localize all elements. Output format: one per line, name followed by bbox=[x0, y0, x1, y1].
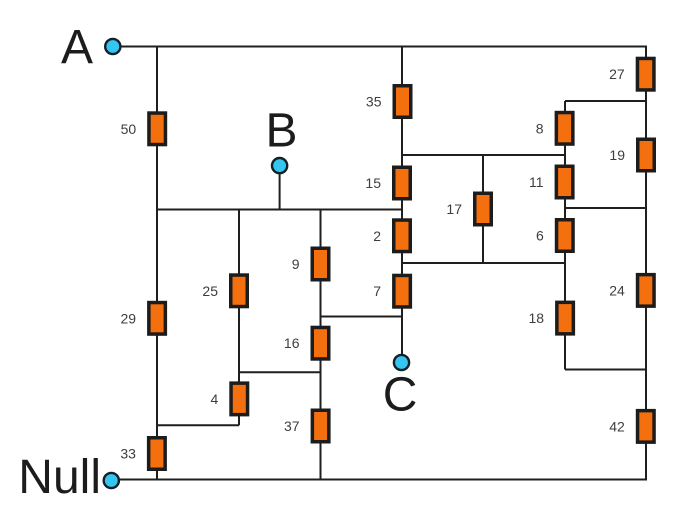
wire: horizontal y=101 from R8 top to right column bbox=[565, 100, 646, 102]
wire: horizontal y=263 between col 402 and col 565 bbox=[402, 262, 565, 264]
resistor R4 bbox=[231, 383, 248, 415]
wire: left column x=157 from top wire to bottom wire bbox=[156, 47, 158, 480]
svg-text:11: 11 bbox=[529, 174, 544, 190]
svg-text:C: C bbox=[383, 369, 418, 422]
resistor R50 bbox=[149, 113, 166, 145]
resistor R15 bbox=[394, 167, 411, 199]
wire: horizontal y=208 between col 565 and right column bbox=[565, 207, 646, 209]
resistor R6 bbox=[557, 220, 574, 252]
wire: column x=320.5 through R9 R16 R37 bbox=[320, 210, 322, 480]
svg-text:B: B bbox=[266, 105, 298, 158]
wire: column x=565 from upper jog down to lower jog bbox=[564, 101, 566, 370]
svg-text:29: 29 bbox=[121, 310, 137, 326]
svg-text:24: 24 bbox=[609, 282, 625, 298]
node B terminal circle bbox=[272, 158, 287, 173]
svg-text:35: 35 bbox=[366, 94, 382, 110]
svg-text:19: 19 bbox=[609, 147, 625, 163]
wire: column x=239 through R25 and R4 bbox=[238, 210, 240, 426]
resistor R24 bbox=[638, 275, 655, 307]
svg-text:4: 4 bbox=[211, 391, 219, 407]
wire: horizontal y=425.3 from left column to col 239 bbox=[157, 424, 239, 426]
svg-text:8: 8 bbox=[536, 120, 544, 136]
svg-text:9: 9 bbox=[292, 256, 300, 272]
resistor R19 bbox=[638, 139, 655, 171]
svg-text:42: 42 bbox=[609, 418, 625, 434]
node A terminal circle bbox=[105, 39, 120, 54]
resistor R37 bbox=[312, 410, 329, 442]
svg-text:2: 2 bbox=[373, 228, 381, 244]
wire: horizontal node-B row y=209.5 from left column to col 402 bbox=[157, 209, 402, 211]
svg-text:15: 15 bbox=[365, 175, 381, 191]
resistor R8 bbox=[556, 113, 573, 145]
svg-text:27: 27 bbox=[609, 66, 625, 82]
resistor R11 bbox=[556, 166, 573, 198]
wire: column x=483 through R17 bbox=[482, 155, 484, 263]
resistor R27 bbox=[637, 58, 654, 89]
resistor R18 bbox=[557, 302, 574, 334]
node C terminal circle bbox=[394, 355, 409, 370]
svg-text:18: 18 bbox=[529, 310, 545, 326]
node Null terminal circle bbox=[104, 473, 119, 488]
resistor R29 bbox=[149, 303, 166, 335]
svg-text:37: 37 bbox=[284, 418, 300, 434]
resistor R9 bbox=[312, 248, 329, 280]
resistor R33 bbox=[149, 438, 166, 470]
wire: stub from terminal B down to node row bbox=[279, 173, 281, 210]
wire: horizontal y=369.5 between col 565 and right column bbox=[565, 369, 646, 371]
svg-text:16: 16 bbox=[284, 335, 300, 351]
wire: horizontal y=372.3 between col 239 and col 320.5 bbox=[239, 371, 321, 373]
resistor R25 bbox=[231, 275, 248, 307]
wire: column x=402 from top wire down to terminal C bbox=[401, 47, 403, 356]
svg-text:17: 17 bbox=[446, 201, 462, 217]
resistor R35 bbox=[394, 86, 411, 118]
resistor R42 bbox=[638, 411, 655, 443]
wire: outer loop from A across top, down right edge, along bottom to Null bbox=[119, 47, 646, 480]
resistor R16 bbox=[312, 327, 329, 359]
svg-text:Null: Null bbox=[18, 451, 101, 504]
svg-text:25: 25 bbox=[202, 283, 218, 299]
svg-text:7: 7 bbox=[373, 283, 381, 299]
resistor R7 bbox=[394, 275, 411, 307]
svg-text:50: 50 bbox=[121, 121, 137, 137]
svg-text:33: 33 bbox=[120, 446, 136, 462]
wire: horizontal y=155 between col 402 and col 565 bbox=[402, 154, 565, 156]
resistor R17 bbox=[475, 193, 492, 225]
resistor R2 bbox=[394, 220, 411, 252]
svg-text:6: 6 bbox=[536, 228, 544, 244]
svg-text:A: A bbox=[61, 21, 93, 74]
wire: horizontal y=316.5 between col 320.5 and col 402 bbox=[321, 316, 403, 318]
